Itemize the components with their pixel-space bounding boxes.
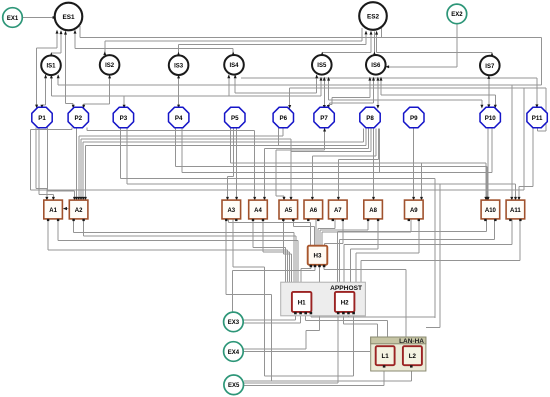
wire	[322, 51, 371, 53]
wire	[300, 313, 302, 323]
wire arrowhead	[420, 197, 423, 201]
node P7	[314, 107, 334, 127]
wire	[292, 220, 294, 227]
wire	[410, 368, 412, 381]
wire arrowhead	[380, 77, 383, 81]
node IS5	[312, 55, 332, 75]
wire	[300, 269, 302, 282]
svg-text:P10: P10	[485, 115, 497, 122]
svg-text:A4: A4	[254, 208, 262, 214]
wire	[58, 239, 298, 241]
wire	[331, 98, 333, 105]
node A8	[364, 200, 383, 221]
wire	[284, 248, 286, 282]
wire	[289, 88, 291, 107]
svg-text:IS7: IS7	[485, 64, 495, 70]
wire	[243, 319, 295, 321]
wire	[37, 47, 57, 49]
wire	[253, 247, 285, 249]
wire	[126, 128, 128, 184]
wire	[87, 130, 255, 132]
node EX4	[224, 342, 244, 362]
wire	[381, 28, 383, 38]
node H1	[292, 292, 312, 314]
wire	[243, 322, 300, 324]
wire	[293, 233, 295, 282]
wire	[36, 48, 38, 107]
wire	[348, 313, 350, 318]
wire	[494, 220, 496, 240]
wire	[378, 129, 380, 160]
wire arrowhead	[123, 105, 126, 109]
wire	[363, 129, 365, 143]
wire arrowhead	[177, 75, 180, 79]
wire	[82, 142, 84, 199]
wire arrowhead	[487, 104, 490, 108]
svg-text:P4: P4	[175, 115, 183, 122]
wire	[79, 135, 283, 137]
node H2	[335, 292, 355, 314]
wire	[337, 313, 339, 383]
wire	[234, 75, 236, 93]
wire	[343, 244, 345, 281]
wire	[376, 324, 378, 336]
wire	[56, 31, 58, 49]
wire	[265, 147, 369, 149]
wire	[306, 330, 320, 332]
wire	[523, 88, 525, 190]
wire	[456, 24, 458, 67]
node P2	[68, 107, 88, 127]
svg-text:EX1: EX1	[7, 16, 19, 22]
node IS1	[41, 56, 61, 76]
wire arrowhead	[370, 31, 373, 35]
wire	[282, 220, 284, 254]
wire arrowhead	[84, 197, 87, 201]
wire	[339, 240, 341, 282]
wire arrowhead	[320, 77, 323, 81]
wire arrowhead	[50, 52, 53, 56]
svg-text:L1: L1	[382, 353, 390, 360]
wire	[48, 190, 75, 192]
wire	[313, 226, 315, 245]
svg-text:P9: P9	[410, 115, 418, 122]
wire	[410, 220, 412, 233]
node A2	[69, 200, 88, 221]
wire	[243, 351, 370, 353]
wire arrowhead	[60, 30, 63, 34]
wire	[45, 75, 47, 105]
svg-text:EX3: EX3	[228, 320, 240, 326]
wire	[316, 75, 318, 93]
wire arrowhead	[372, 77, 375, 81]
node A6	[304, 200, 323, 221]
svg-text:ES1: ES1	[62, 14, 75, 21]
wire	[229, 222, 311, 224]
wire	[228, 220, 230, 223]
node P5	[225, 107, 245, 127]
wire	[80, 37, 541, 39]
node P6	[273, 107, 293, 127]
wire arrowhead	[234, 74, 237, 78]
node IS6	[366, 55, 386, 75]
wire	[413, 128, 415, 199]
svg-text:A1: A1	[49, 208, 57, 214]
svg-text:A7: A7	[334, 208, 342, 214]
node L1	[376, 346, 395, 367]
wire	[175, 128, 177, 167]
wire	[323, 267, 325, 270]
wire	[47, 220, 49, 250]
wire arrowhead	[290, 197, 293, 201]
wire	[109, 75, 111, 104]
node A4	[249, 200, 268, 221]
wire arrowhead	[75, 197, 78, 201]
wire	[310, 223, 312, 245]
wire	[387, 66, 457, 68]
wire	[85, 144, 366, 146]
node A3	[222, 200, 241, 221]
svg-text:IS6: IS6	[371, 63, 381, 69]
wire	[329, 99, 482, 101]
wire	[293, 225, 314, 227]
wire	[227, 176, 229, 199]
wire	[405, 270, 407, 337]
wire arrowhead	[315, 74, 318, 78]
wire	[291, 150, 371, 152]
wire arrowhead	[518, 197, 521, 201]
wire	[74, 232, 294, 234]
wire	[83, 104, 85, 107]
wire	[179, 43, 367, 45]
wire arrowhead	[494, 105, 497, 109]
svg-text:A3: A3	[227, 208, 235, 214]
wire A2-A1	[63, 207, 68, 210]
wire	[74, 191, 76, 199]
wire arrowhead	[177, 52, 180, 56]
svg-text:A11: A11	[510, 208, 521, 214]
wire arrowhead	[323, 128, 326, 132]
node IS3	[169, 55, 189, 75]
wire	[377, 52, 492, 54]
wire	[361, 28, 363, 41]
wire	[47, 128, 49, 192]
wire arrowhead	[50, 75, 53, 79]
wire	[289, 252, 291, 282]
wire	[540, 38, 542, 85]
wire	[78, 136, 80, 199]
svg-text:H1: H1	[298, 299, 306, 306]
wire arrowhead	[57, 74, 60, 78]
wire	[181, 128, 183, 173]
wire	[121, 178, 436, 180]
wire	[338, 231, 487, 233]
wire	[297, 240, 299, 281]
svg-text:EX4: EX4	[228, 350, 240, 356]
wire arrowhead	[227, 74, 230, 78]
wire	[375, 129, 377, 157]
svg-text:P7: P7	[320, 115, 328, 122]
wire	[355, 253, 357, 282]
wire	[290, 139, 292, 199]
node A10	[481, 200, 500, 221]
wire	[337, 159, 339, 199]
node P9	[404, 107, 424, 127]
svg-text:EX2: EX2	[451, 12, 463, 18]
wire	[244, 385, 384, 387]
wire	[104, 41, 106, 54]
wire	[51, 95, 228, 97]
wire	[31, 129, 72, 131]
wire	[79, 26, 81, 38]
wire	[418, 220, 420, 254]
node EX5	[224, 375, 244, 395]
wire	[343, 323, 377, 325]
wire arrowhead	[53, 16, 57, 19]
svg-text:A6: A6	[309, 208, 317, 214]
wire arrowhead	[535, 104, 538, 108]
svg-text:A5: A5	[284, 208, 292, 214]
svg-text:A8: A8	[369, 208, 377, 214]
wire	[226, 294, 272, 296]
wire	[241, 77, 537, 79]
wire	[57, 220, 59, 241]
wire	[83, 141, 363, 143]
wire arrowhead	[45, 197, 48, 201]
wire	[276, 149, 325, 151]
wire	[290, 87, 546, 89]
wire	[491, 128, 493, 173]
wire	[367, 220, 369, 231]
wire	[83, 220, 85, 237]
wire	[365, 129, 367, 146]
wire	[537, 128, 539, 131]
svg-text:IS2: IS2	[105, 63, 115, 69]
wire	[182, 171, 492, 173]
wire arrowhead	[327, 77, 330, 81]
wire	[310, 313, 312, 318]
wire	[324, 269, 406, 271]
wire	[282, 129, 284, 136]
wire	[243, 348, 306, 350]
node P1	[32, 107, 52, 127]
wire	[361, 259, 520, 261]
node ES1	[55, 3, 83, 31]
node P8	[360, 107, 380, 127]
svg-text:P3: P3	[120, 115, 128, 122]
wire	[383, 368, 385, 386]
wire	[305, 331, 307, 350]
wire	[50, 75, 52, 95]
wire	[320, 229, 368, 231]
wire	[370, 32, 372, 53]
wire	[306, 320, 388, 322]
wire	[380, 78, 382, 96]
wire	[323, 78, 325, 108]
APPHOST container	[281, 282, 366, 316]
wire arrowhead	[491, 52, 494, 56]
wire	[519, 186, 533, 188]
svg-text:A10: A10	[485, 208, 497, 214]
wire arrowhead	[480, 105, 483, 109]
wire	[330, 102, 374, 104]
svg-text:P5: P5	[231, 115, 239, 122]
wire	[376, 32, 378, 53]
wire	[75, 48, 233, 50]
wire	[488, 76, 490, 107]
wire	[38, 128, 40, 195]
wire arrowhead	[412, 197, 415, 201]
wire	[324, 129, 326, 150]
wire arrowhead	[486, 197, 489, 201]
wire	[373, 129, 375, 200]
svg-text:IS4: IS4	[229, 63, 239, 69]
wire	[72, 104, 74, 108]
wire	[48, 249, 287, 251]
wire	[39, 194, 53, 196]
wire arrowhead	[82, 105, 85, 109]
wire	[244, 382, 338, 384]
svg-text:H2: H2	[341, 299, 349, 306]
svg-text:EX5: EX5	[228, 383, 240, 389]
wire	[351, 248, 378, 250]
wire arrowhead	[323, 105, 326, 109]
wire	[350, 249, 352, 282]
wire arrowhead	[487, 75, 490, 79]
wire arrowhead	[510, 197, 513, 201]
wire	[511, 85, 513, 199]
wire	[315, 220, 317, 246]
wire	[51, 52, 61, 54]
svg-text:IS1: IS1	[46, 64, 56, 70]
svg-text:P2: P2	[75, 115, 83, 122]
wire	[373, 32, 375, 55]
wire	[228, 175, 234, 177]
wire	[80, 139, 82, 199]
node IS2	[100, 55, 120, 75]
node EX3	[224, 312, 244, 332]
wire	[368, 129, 370, 149]
svg-text:P11: P11	[532, 115, 543, 122]
wire arrowhead	[226, 197, 229, 201]
wire	[377, 78, 379, 108]
wire	[421, 163, 423, 199]
wire	[311, 156, 313, 199]
wire	[57, 75, 59, 85]
node EX2	[447, 4, 467, 24]
wire arrowhead	[514, 197, 517, 201]
wire	[518, 187, 520, 200]
wire	[35, 128, 37, 189]
wire	[485, 220, 487, 232]
wire	[301, 268, 311, 270]
wire arrowhead	[311, 197, 314, 201]
wire	[262, 220, 264, 252]
wire arrowhead	[487, 197, 490, 201]
wire arrowhead	[327, 105, 330, 109]
wire arrowhead	[40, 105, 43, 109]
wire	[58, 84, 541, 86]
wire	[334, 220, 336, 229]
wire	[52, 195, 54, 200]
wire	[387, 321, 389, 337]
wire arrowhead	[372, 197, 375, 201]
wire arrowhead	[376, 105, 379, 109]
wire	[178, 75, 180, 106]
wire	[305, 313, 307, 321]
wire	[264, 375, 353, 377]
wire	[360, 260, 362, 281]
wire	[340, 239, 495, 241]
wire	[271, 295, 273, 381]
svg-text:A2: A2	[75, 208, 83, 214]
wire	[314, 267, 316, 271]
wire arrowhead	[108, 75, 111, 79]
wire	[487, 128, 489, 199]
wire	[254, 131, 256, 200]
wire	[86, 128, 88, 131]
node A5	[279, 200, 298, 221]
svg-text:P8: P8	[366, 115, 374, 122]
wire	[481, 100, 483, 107]
wire	[264, 148, 266, 199]
wire	[233, 128, 235, 177]
wire	[30, 130, 32, 190]
wire arrowhead	[232, 52, 235, 56]
svg-text:A9: A9	[410, 208, 418, 214]
wire	[232, 49, 234, 55]
wire	[338, 158, 378, 160]
wire	[50, 53, 52, 55]
wire arrowhead	[52, 197, 55, 201]
wire	[31, 189, 524, 191]
wire arrowhead	[323, 77, 326, 81]
node EX1	[3, 8, 23, 28]
wire	[225, 220, 227, 295]
svg-text:P1: P1	[38, 115, 46, 122]
wire arrowhead	[82, 197, 85, 201]
node L2	[403, 346, 422, 367]
wire	[494, 95, 496, 107]
wire	[275, 150, 277, 196]
wire	[233, 270, 315, 272]
wire	[365, 32, 367, 45]
wire	[244, 380, 411, 382]
wire	[236, 128, 238, 199]
wire arrowhead	[72, 105, 75, 109]
wire	[230, 128, 232, 163]
wire	[105, 40, 362, 42]
wire arrowhead	[283, 197, 286, 201]
wire	[74, 31, 76, 49]
wire	[337, 232, 339, 282]
wire	[65, 32, 67, 104]
wire arrowhead	[321, 52, 324, 56]
node A7	[329, 200, 348, 221]
wire	[377, 220, 379, 249]
wire arrowhead	[263, 197, 266, 201]
wire arrowhead	[77, 197, 80, 201]
wire arrowhead	[375, 31, 378, 35]
wire	[295, 236, 297, 282]
wire	[327, 104, 329, 107]
svg-text:ES2: ES2	[367, 13, 380, 20]
wire	[545, 88, 547, 131]
wire	[294, 313, 296, 320]
wire	[342, 313, 344, 325]
wire	[319, 267, 321, 331]
wire	[276, 195, 284, 197]
